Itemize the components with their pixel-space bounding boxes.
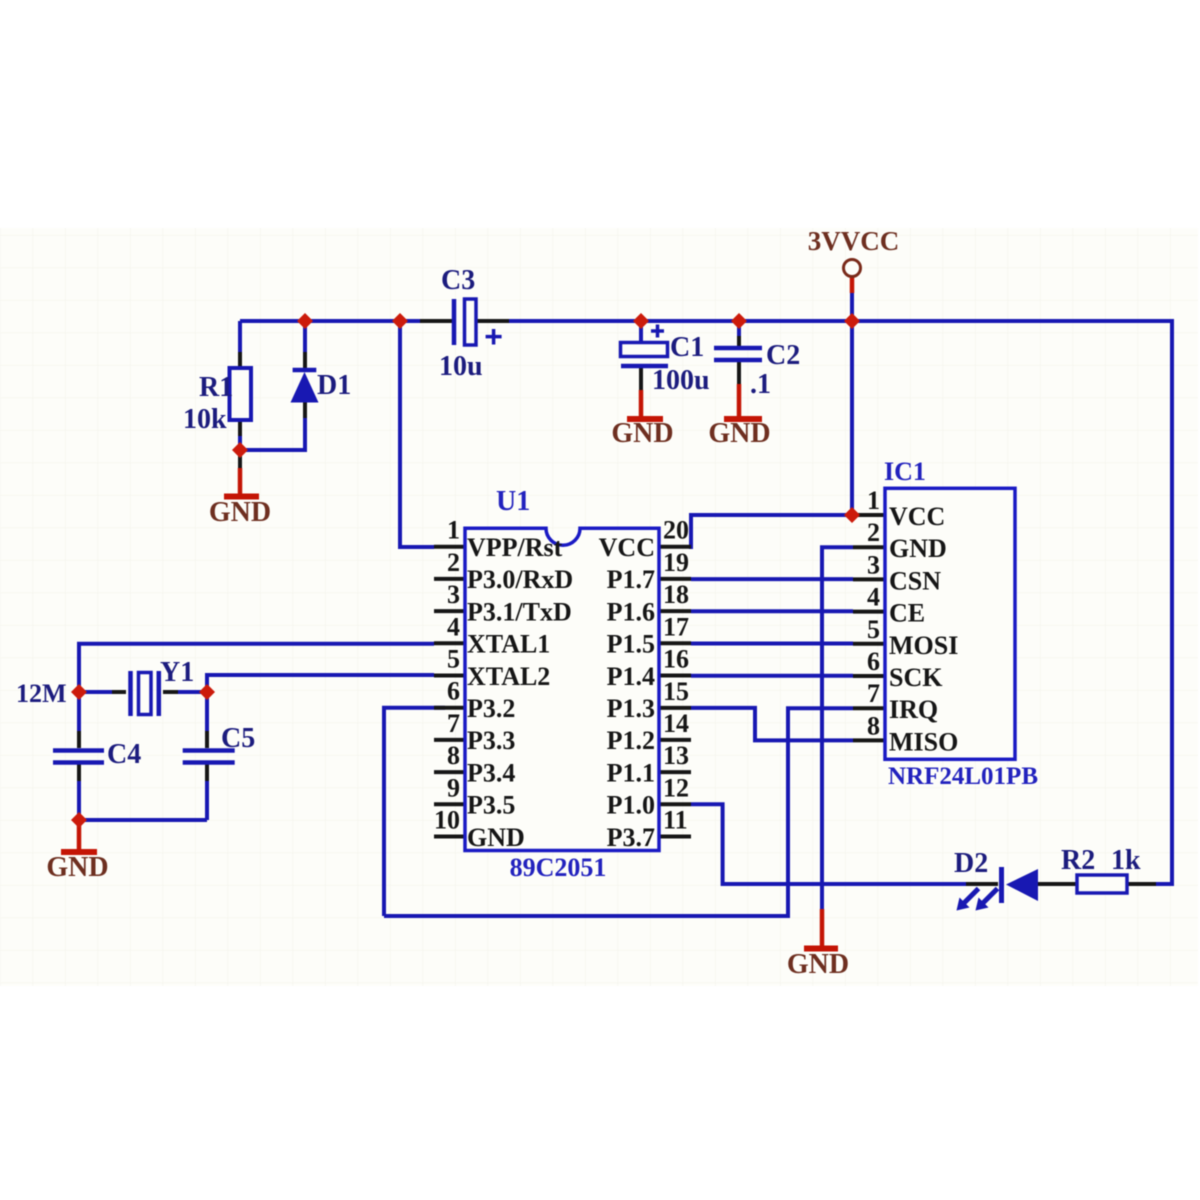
svg-text:D1: D1	[317, 370, 351, 401]
svg-text:CSN: CSN	[889, 566, 941, 595]
svg-text:VCC: VCC	[599, 533, 655, 562]
svg-text:P1.7: P1.7	[607, 565, 655, 594]
svg-text:20: 20	[663, 516, 689, 545]
svg-text:CE: CE	[889, 599, 925, 628]
svg-text:3: 3	[867, 550, 880, 579]
svg-text:16: 16	[663, 645, 689, 674]
svg-text:13: 13	[663, 741, 689, 770]
svg-text:11: 11	[663, 806, 688, 835]
svg-text:10u: 10u	[439, 351, 483, 382]
svg-text:C5: C5	[221, 723, 255, 754]
svg-text:P3.5: P3.5	[467, 791, 515, 820]
svg-text:10: 10	[434, 806, 460, 835]
svg-text:SCK: SCK	[889, 663, 943, 692]
svg-text:D2: D2	[954, 848, 988, 879]
svg-text:3VVCC: 3VVCC	[808, 226, 900, 256]
svg-text:.1: .1	[750, 369, 771, 400]
svg-text:5: 5	[447, 645, 460, 674]
svg-text:5: 5	[867, 615, 880, 644]
svg-text:MISO: MISO	[889, 727, 958, 756]
svg-text:P1.1: P1.1	[607, 758, 655, 787]
svg-text:VCC: VCC	[889, 502, 945, 531]
svg-text:U1: U1	[496, 486, 530, 517]
svg-text:VPP/Rst: VPP/Rst	[467, 533, 563, 562]
svg-text:GND: GND	[209, 497, 271, 528]
svg-text:15: 15	[663, 677, 689, 706]
svg-text:P1.4: P1.4	[607, 662, 655, 691]
svg-text:14: 14	[663, 709, 689, 738]
svg-text:P3.1/TxD: P3.1/TxD	[467, 597, 572, 626]
svg-text:4: 4	[867, 583, 880, 612]
svg-text:100u: 100u	[652, 365, 710, 396]
svg-text:C3: C3	[441, 265, 475, 296]
svg-text:P1.3: P1.3	[607, 694, 655, 723]
svg-text:P1.5: P1.5	[607, 630, 655, 659]
svg-text:89C2051: 89C2051	[510, 853, 607, 882]
svg-text:9: 9	[447, 773, 460, 802]
svg-text:18: 18	[663, 580, 689, 609]
svg-text:P1.0: P1.0	[607, 791, 655, 820]
svg-text:GND: GND	[708, 418, 770, 449]
svg-text:P3.2: P3.2	[467, 694, 515, 723]
svg-text:GND: GND	[46, 852, 108, 883]
svg-text:P3.3: P3.3	[467, 726, 515, 755]
svg-text:6: 6	[867, 647, 880, 676]
svg-text:R1: R1	[199, 372, 233, 403]
svg-text:C1: C1	[670, 332, 704, 363]
svg-text:17: 17	[663, 612, 689, 641]
svg-text:R2: R2	[1061, 845, 1095, 876]
svg-text:3: 3	[447, 580, 460, 609]
svg-text:7: 7	[447, 709, 460, 738]
svg-text:IC1: IC1	[884, 457, 926, 486]
svg-text:P3.7: P3.7	[607, 823, 655, 852]
svg-text:P3.0/RxD: P3.0/RxD	[467, 565, 573, 594]
svg-text:2: 2	[447, 548, 460, 577]
svg-text:1: 1	[867, 486, 880, 515]
svg-text:GND: GND	[611, 418, 673, 449]
svg-text:C2: C2	[766, 340, 800, 371]
svg-text:Y1: Y1	[160, 657, 194, 688]
svg-text:GND: GND	[467, 823, 525, 852]
svg-text:IRQ: IRQ	[889, 695, 938, 724]
svg-text:P3.4: P3.4	[467, 758, 515, 787]
svg-text:XTAL1: XTAL1	[467, 630, 550, 659]
svg-text:1: 1	[447, 516, 460, 545]
svg-text:1k: 1k	[1111, 845, 1141, 876]
svg-text:GND: GND	[889, 534, 947, 563]
svg-text:4: 4	[447, 612, 460, 641]
svg-text:7: 7	[867, 679, 880, 708]
svg-text:8: 8	[867, 711, 880, 740]
svg-text:10k: 10k	[183, 404, 227, 435]
svg-text:MOSI: MOSI	[889, 631, 958, 660]
svg-text:XTAL2: XTAL2	[467, 662, 550, 691]
svg-text:P1.2: P1.2	[607, 726, 655, 755]
svg-text:GND: GND	[787, 949, 849, 980]
svg-text:6: 6	[447, 677, 460, 706]
svg-text:19: 19	[663, 548, 689, 577]
svg-text:C4: C4	[107, 739, 141, 770]
svg-text:8: 8	[447, 741, 460, 770]
svg-text:2: 2	[867, 518, 880, 547]
svg-text:NRF24L01PB: NRF24L01PB	[888, 763, 1038, 790]
svg-text:12M: 12M	[16, 679, 67, 708]
svg-text:12: 12	[663, 773, 689, 802]
svg-text:P1.6: P1.6	[607, 597, 655, 626]
